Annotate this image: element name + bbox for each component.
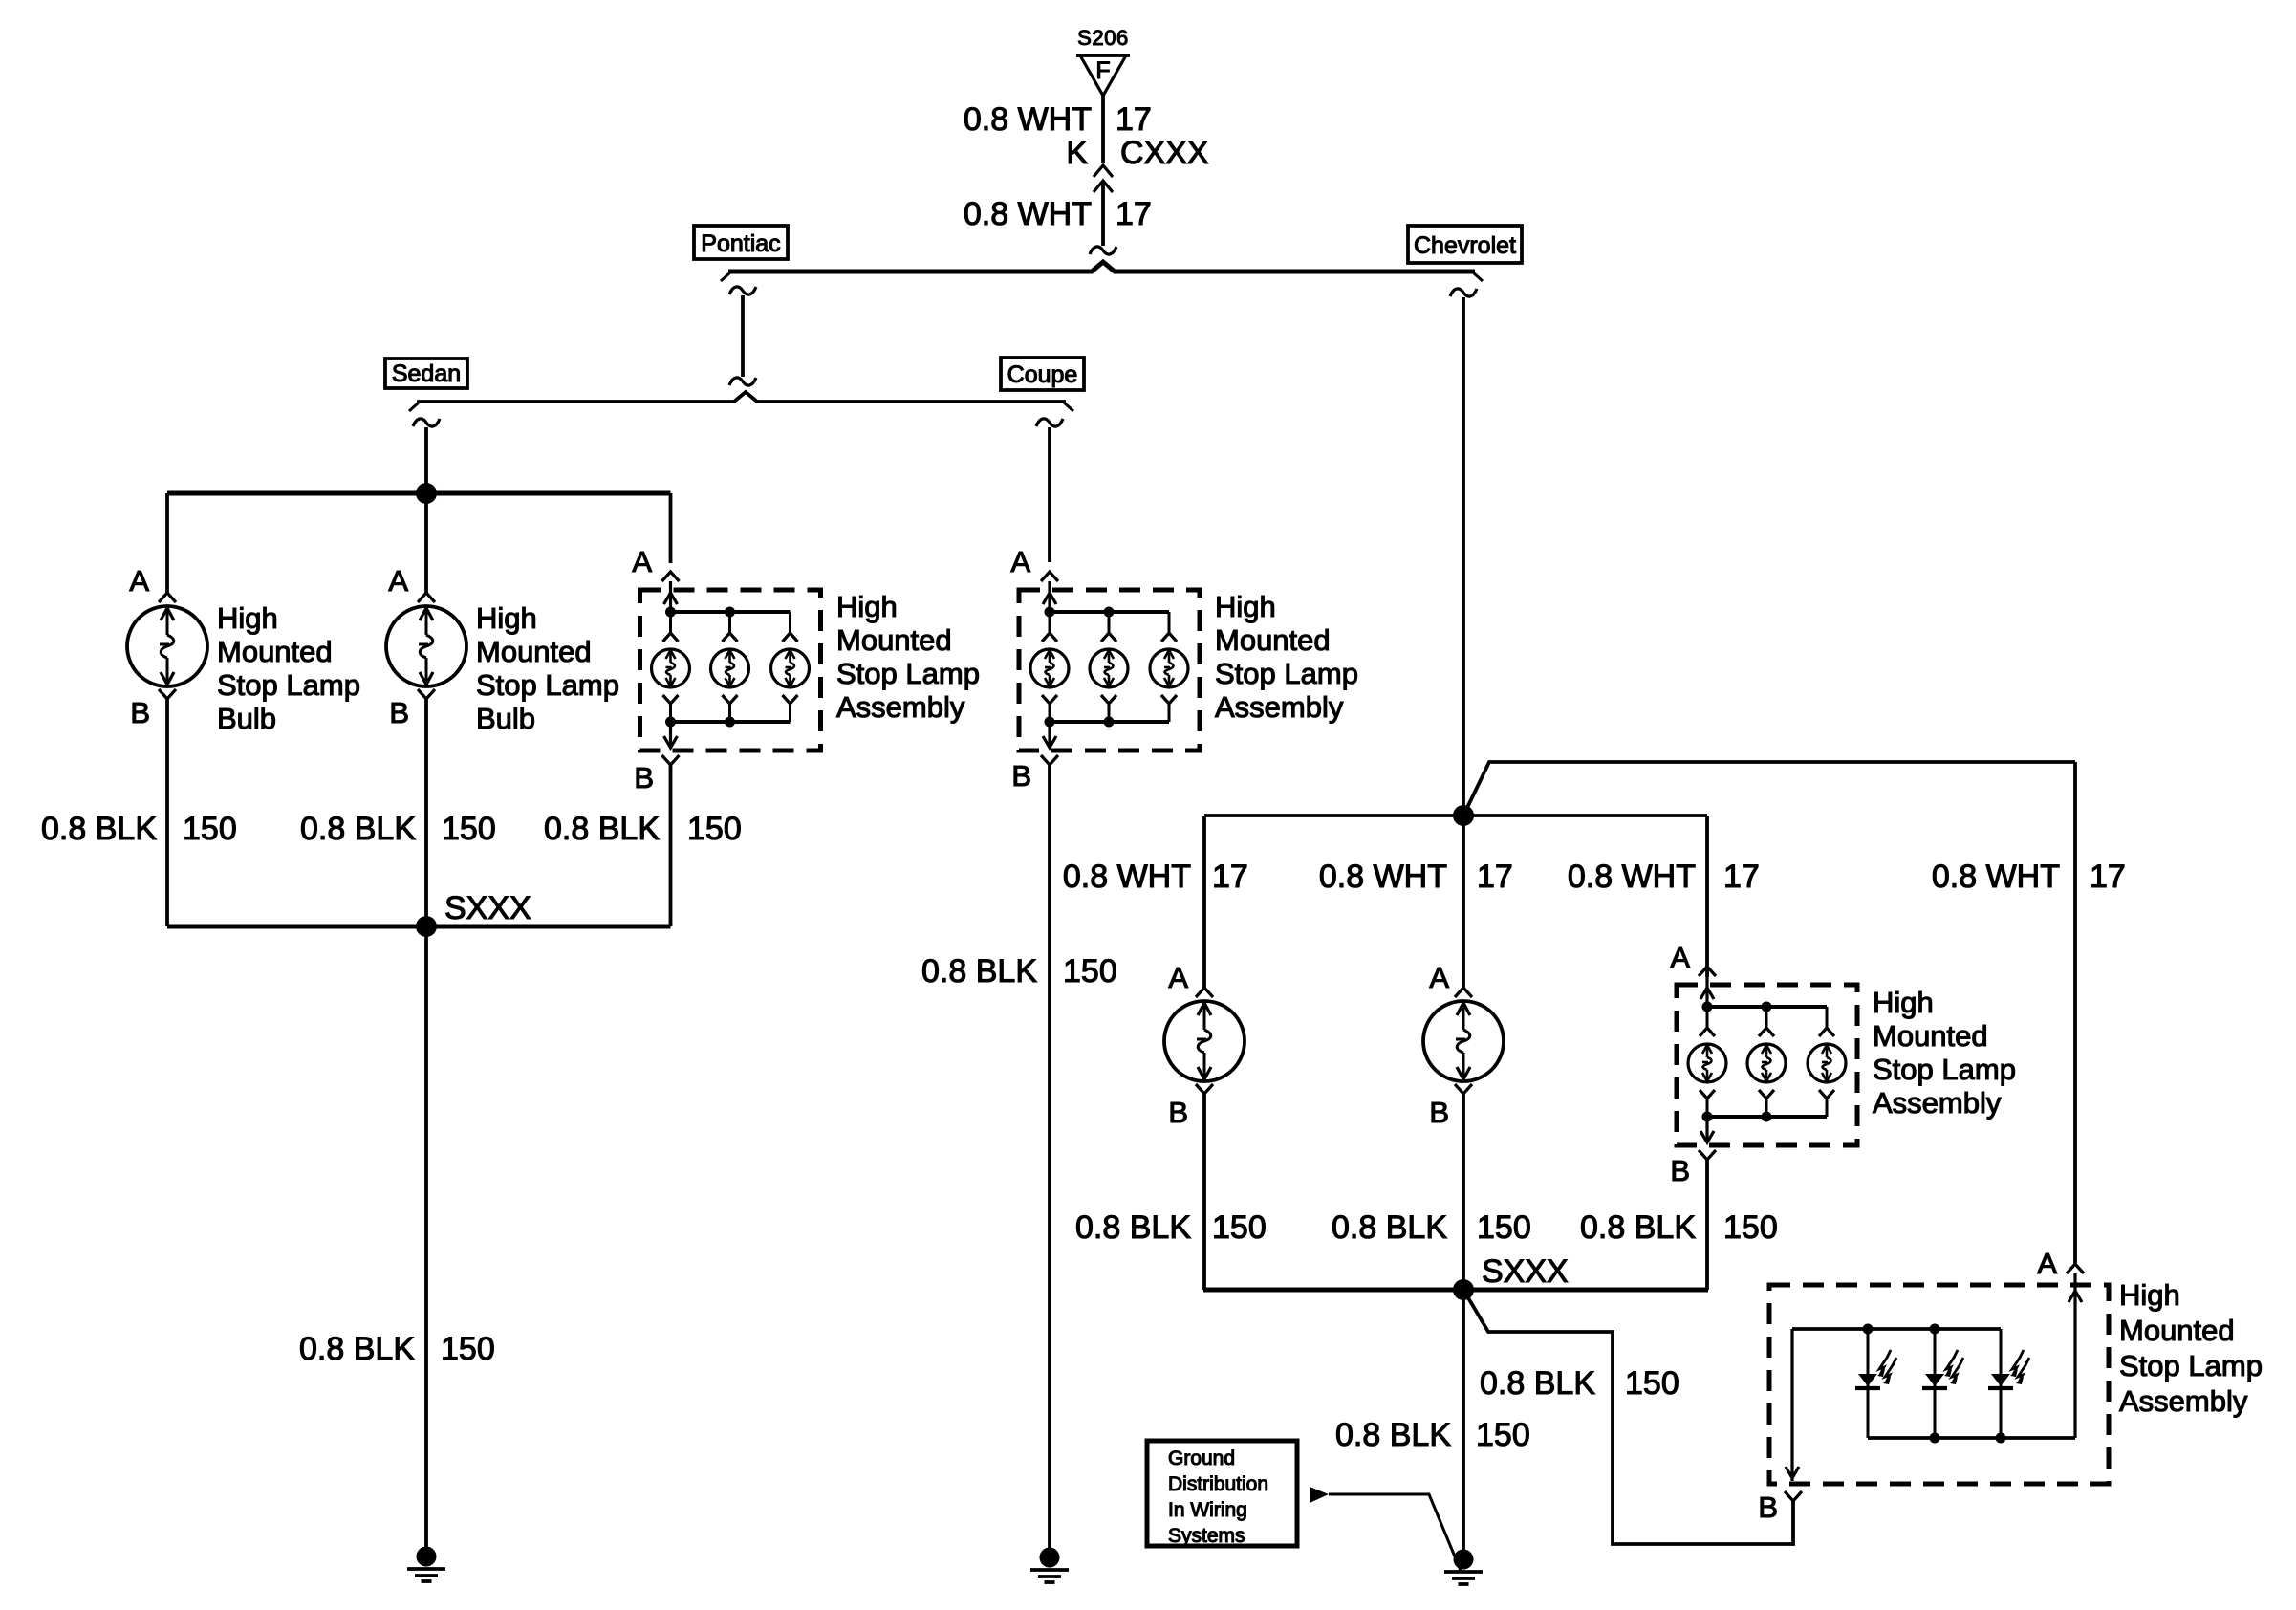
svg-text:150: 150	[1625, 1365, 1679, 1402]
svg-text:0.8 BLK: 0.8 BLK	[921, 953, 1037, 990]
svg-text:Ground: Ground	[1168, 1447, 1235, 1469]
svg-text:In Wiring: In Wiring	[1168, 1499, 1247, 1521]
svg-text:Chevrolet: Chevrolet	[1414, 232, 1516, 259]
svg-text:F: F	[1095, 57, 1110, 84]
svg-text:Stop Lamp: Stop Lamp	[476, 668, 619, 702]
svg-text:Stop Lamp: Stop Lamp	[2119, 1349, 2263, 1382]
svg-text:Assembly: Assembly	[836, 690, 965, 724]
svg-text:Pontiac: Pontiac	[701, 230, 780, 257]
svg-text:150: 150	[687, 811, 742, 847]
svg-text:Mounted: Mounted	[836, 623, 952, 657]
svg-text:B: B	[1011, 759, 1031, 793]
svg-text:0.8 WHT: 0.8 WHT	[1568, 859, 1696, 895]
svg-text:17: 17	[1212, 859, 1248, 895]
svg-text:17: 17	[1116, 101, 1152, 138]
svg-text:0.8 WHT: 0.8 WHT	[964, 196, 1092, 232]
svg-text:A: A	[129, 564, 149, 598]
svg-text:17: 17	[2090, 859, 2126, 895]
svg-text:Stop Lamp: Stop Lamp	[1215, 657, 1358, 690]
svg-text:K: K	[1066, 135, 1088, 171]
svg-text:B: B	[389, 696, 409, 729]
svg-text:Distribution: Distribution	[1168, 1473, 1268, 1495]
svg-text:Stop Lamp: Stop Lamp	[1873, 1053, 2016, 1086]
svg-text:A: A	[1010, 545, 1030, 578]
svg-text:A: A	[1670, 941, 1690, 974]
svg-text:Mounted: Mounted	[1215, 623, 1331, 657]
svg-text:Assembly: Assembly	[2119, 1384, 2248, 1418]
svg-text:Stop Lamp: Stop Lamp	[217, 668, 360, 702]
svg-text:150: 150	[441, 1331, 495, 1367]
svg-text:0.8 BLK: 0.8 BLK	[544, 811, 660, 847]
svg-text:Coupe: Coupe	[1007, 361, 1078, 388]
svg-text:B: B	[634, 761, 654, 794]
svg-text:0.8 BLK: 0.8 BLK	[41, 811, 157, 847]
svg-text:0.8 BLK: 0.8 BLK	[1075, 1209, 1191, 1246]
svg-text:SXXX: SXXX	[1482, 1253, 1569, 1290]
svg-text:Bulb: Bulb	[217, 702, 276, 735]
svg-text:S206: S206	[1077, 26, 1129, 50]
svg-text:0.8 BLK: 0.8 BLK	[1335, 1417, 1451, 1453]
svg-text:Bulb: Bulb	[476, 702, 535, 735]
svg-text:A: A	[1429, 961, 1449, 994]
svg-text:Sedan: Sedan	[392, 360, 461, 387]
svg-text:B: B	[1758, 1490, 1778, 1524]
svg-text:B: B	[1429, 1096, 1449, 1129]
svg-text:Mounted: Mounted	[2119, 1314, 2235, 1347]
svg-text:150: 150	[1476, 1417, 1530, 1453]
svg-text:150: 150	[1723, 1209, 1778, 1246]
svg-text:0.8 WHT: 0.8 WHT	[1932, 859, 2060, 895]
svg-text:High: High	[1873, 986, 1934, 1019]
svg-text:High: High	[476, 601, 537, 635]
svg-text:150: 150	[1212, 1209, 1267, 1246]
svg-text:0.8 BLK: 0.8 BLK	[1332, 1209, 1447, 1246]
svg-text:B: B	[1168, 1096, 1188, 1129]
svg-text:0.8 WHT: 0.8 WHT	[1319, 859, 1447, 895]
svg-text:A: A	[2037, 1247, 2057, 1280]
svg-text:CXXX: CXXX	[1120, 135, 1209, 171]
svg-text:150: 150	[442, 811, 496, 847]
svg-text:A: A	[388, 564, 408, 598]
svg-text:17: 17	[1723, 859, 1760, 895]
svg-text:High: High	[217, 601, 278, 635]
svg-text:0.8 BLK: 0.8 BLK	[299, 1331, 415, 1367]
svg-text:17: 17	[1477, 859, 1513, 895]
svg-text:Stop Lamp: Stop Lamp	[836, 657, 980, 690]
svg-text:Assembly: Assembly	[1873, 1086, 2002, 1120]
svg-text:A: A	[1168, 961, 1188, 994]
svg-text:0.8 BLK: 0.8 BLK	[1480, 1365, 1595, 1402]
svg-text:B: B	[1670, 1154, 1690, 1187]
svg-text:A: A	[632, 545, 652, 578]
svg-text:0.8 BLK: 0.8 BLK	[1580, 1209, 1696, 1246]
svg-text:Systems: Systems	[1168, 1525, 1245, 1547]
svg-text:0.8 BLK: 0.8 BLK	[300, 811, 416, 847]
svg-text:High: High	[836, 590, 898, 623]
svg-text:SXXX: SXXX	[444, 890, 531, 926]
svg-text:150: 150	[1477, 1209, 1531, 1246]
svg-text:150: 150	[1063, 953, 1117, 990]
svg-text:Mounted: Mounted	[217, 635, 333, 668]
svg-text:Mounted: Mounted	[476, 635, 592, 668]
svg-text:0.8 WHT: 0.8 WHT	[964, 101, 1092, 138]
svg-text:17: 17	[1116, 196, 1152, 232]
svg-text:Mounted: Mounted	[1873, 1019, 1988, 1053]
svg-text:150: 150	[183, 811, 237, 847]
svg-text:High: High	[2119, 1278, 2180, 1312]
svg-text:0.8 WHT: 0.8 WHT	[1063, 859, 1191, 895]
svg-text:Assembly: Assembly	[1215, 690, 1344, 724]
svg-text:High: High	[1215, 590, 1276, 623]
svg-text:B: B	[130, 696, 150, 729]
